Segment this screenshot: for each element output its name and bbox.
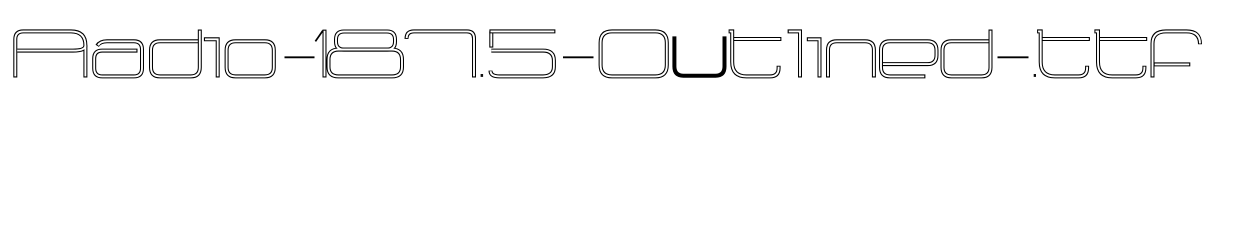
hyphen 3 — [998, 56, 1029, 58]
letter d — [151, 30, 200, 77]
letter u — [674, 36, 724, 75]
letter l — [788, 31, 800, 77]
letter t 3 — [1094, 31, 1147, 76]
letter t 1 — [729, 31, 782, 76]
period 2 — [1034, 74, 1036, 77]
letter i — [204, 39, 218, 77]
letter o — [227, 41, 274, 76]
letter a — [94, 41, 142, 76]
letter d 2 — [943, 30, 991, 77]
letter O — [601, 31, 667, 76]
digit 7 — [407, 31, 475, 77]
letter i 2 — [807, 39, 820, 77]
letter f — [1153, 31, 1201, 77]
digit 5 — [489, 31, 555, 76]
letter R — [15, 31, 85, 77]
hyphen 2 — [563, 56, 594, 58]
letter t 2 — [1037, 31, 1090, 76]
period 1 — [481, 74, 484, 77]
letter n — [828, 41, 874, 77]
digit 1 — [315, 30, 324, 78]
hyphen 1 — [285, 56, 315, 58]
letter e — [881, 41, 937, 76]
digit 8 — [329, 32, 403, 77]
